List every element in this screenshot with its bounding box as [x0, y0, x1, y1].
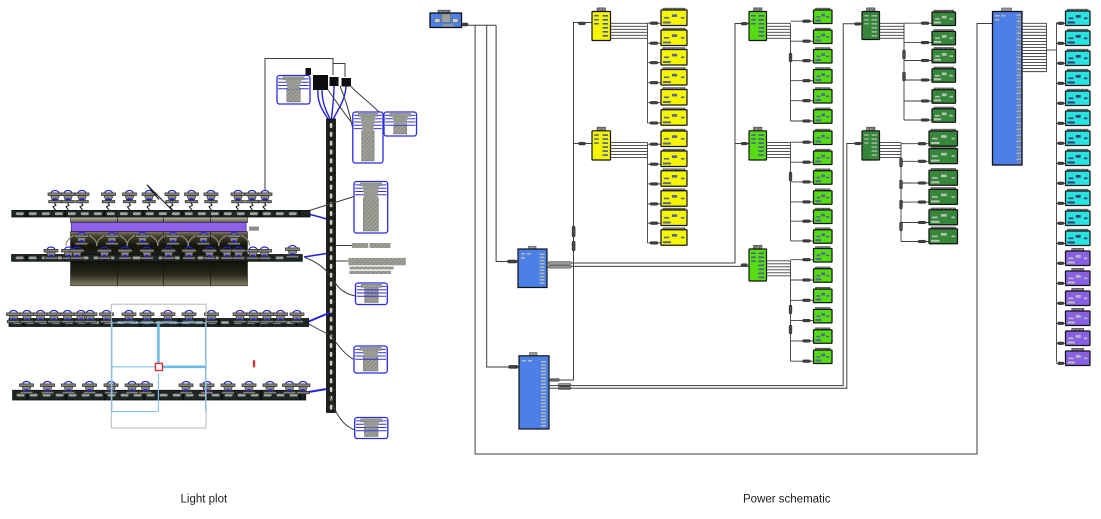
wire stub: [791, 320, 814, 322]
fixture F13: [75, 233, 89, 253]
wire fan Y2: [611, 143, 648, 243]
fixture F18: [227, 233, 241, 253]
truss T4: [13, 390, 306, 400]
device Y1.1: [661, 8, 687, 25]
fixture F63: [283, 382, 297, 394]
capsule connector: [900, 200, 903, 209]
distribution box Y2: [592, 127, 611, 160]
fixture F55: [104, 382, 118, 394]
fixture F48: [260, 311, 274, 323]
connector: [579, 142, 586, 145]
device Y1.6: [661, 108, 687, 125]
cable tray bar: [352, 243, 369, 248]
cable tray bar: [370, 243, 391, 248]
device G3.6: [814, 348, 833, 363]
load box L4: [1066, 69, 1091, 85]
fixture F41: [122, 311, 136, 323]
wire stub: [648, 22, 662, 24]
crosshair thick vertical: [157, 324, 160, 364]
device D1.6: [932, 107, 956, 122]
selection marquee rectangle: [111, 304, 206, 428]
wire stub: [1057, 22, 1066, 24]
breakout box E: [356, 283, 388, 305]
fixture F59: [200, 382, 214, 394]
connector: [855, 23, 862, 26]
video wall mid row: [71, 232, 248, 262]
distribution box Y1: [592, 8, 611, 41]
fixture F8: [185, 191, 199, 211]
wire stub: [648, 203, 662, 205]
fixture F58: [179, 382, 193, 394]
load box L6: [1066, 109, 1091, 125]
wire riser right column: [1056, 23, 1058, 363]
fixture F27: [203, 247, 217, 259]
guide line: [111, 323, 113, 412]
wire stub: [1057, 62, 1066, 64]
power distro R2: [519, 353, 549, 429]
device D2.5: [929, 208, 958, 225]
device D1.2: [932, 30, 956, 45]
fixture F25: [162, 247, 176, 259]
svg-text:Power schematic: Power schematic: [743, 494, 831, 506]
fixture F6: [142, 191, 156, 211]
device G1.2: [814, 28, 833, 43]
fixture F36: [47, 311, 61, 323]
capsule connector: [789, 305, 792, 314]
device G2.5: [814, 208, 833, 223]
connector: [579, 22, 586, 25]
fixture F51: [20, 382, 34, 394]
wall side tab: [249, 227, 259, 231]
fixture F23: [118, 247, 132, 259]
device Y2.1: [661, 129, 687, 146]
distribution box G2: [749, 127, 767, 160]
fixture F10: [231, 191, 245, 211]
wire feeder to distro R2: [487, 25, 519, 367]
fixture F26: [182, 247, 196, 259]
distribution box D2: [862, 127, 880, 160]
wire feeder to distro R1: [496, 25, 518, 261]
blue cable: [309, 313, 330, 322]
wire distro R2 output C: [549, 144, 862, 389]
truss T3: [9, 319, 309, 327]
load box L13: [1066, 248, 1091, 265]
wire feeder bus: [468, 24, 496, 26]
wire stub: [648, 143, 662, 145]
cable: [340, 86, 353, 129]
fixture F2: [61, 191, 75, 211]
wire fan Y1: [611, 23, 648, 123]
fixture F1: [48, 191, 62, 211]
svg-text:Light plot: Light plot: [181, 494, 228, 506]
dimmer block B2: [330, 77, 339, 86]
connector: [741, 142, 748, 145]
cable: [305, 258, 330, 276]
capsule connector: [900, 158, 903, 167]
cable: [330, 396, 355, 430]
load box L10: [1066, 189, 1091, 205]
device G1.5: [814, 88, 833, 103]
device D2.2: [929, 147, 958, 164]
wire stub: [648, 183, 662, 185]
load box L8: [1066, 149, 1091, 165]
annotation arrow: [147, 185, 172, 210]
device G3.3: [814, 287, 833, 302]
wire stub: [1057, 82, 1066, 84]
blue cable: [322, 90, 330, 119]
blue cable: [304, 254, 327, 258]
device Y1.2: [661, 28, 687, 45]
breakout box C: [384, 112, 417, 136]
cable: [303, 197, 354, 213]
device Y1.4: [661, 68, 687, 85]
fixture F39: [83, 311, 97, 323]
wire stub: [791, 40, 814, 42]
connector: [509, 365, 519, 368]
fixture F38: [74, 311, 88, 323]
wire stub: [1057, 322, 1066, 324]
cable: [332, 277, 356, 296]
guide line: [112, 411, 158, 413]
device D1.3: [932, 48, 956, 63]
breakout box A: [277, 76, 310, 105]
fixture F42: [140, 311, 154, 323]
load box L7: [1066, 129, 1091, 145]
blue cable: [300, 213, 327, 220]
wire stub: [648, 42, 662, 44]
device D2.6: [929, 227, 958, 244]
device D2.3: [929, 169, 958, 186]
truss T2: [12, 255, 303, 262]
fixture F54: [83, 382, 97, 394]
wire stub: [648, 62, 662, 64]
connector capsule pair: [548, 262, 572, 265]
breakout box D: [354, 182, 388, 234]
fixture F52: [41, 382, 55, 394]
video wall top row: [71, 216, 248, 223]
wire stub: [901, 160, 929, 162]
device Y2.3: [661, 169, 687, 186]
wire stub: [1057, 222, 1066, 224]
wire stub: [791, 340, 814, 342]
load box L17: [1066, 328, 1091, 345]
fixture F50: [290, 311, 304, 323]
device D1.5: [932, 88, 956, 103]
wire distro R2 output B: [549, 24, 862, 386]
fixture F43: [161, 311, 175, 323]
wire stub: [648, 163, 662, 165]
device D1.4: [932, 67, 956, 82]
wire stub: [1057, 102, 1066, 104]
wire stub: [648, 222, 662, 224]
fixture F62: [263, 382, 277, 394]
wire fan D1: [880, 23, 905, 120]
wire stub: [1057, 122, 1066, 124]
connector: [462, 23, 469, 26]
fixture F14: [105, 233, 119, 253]
device G1.4: [814, 68, 833, 83]
wire feeder to main panel: [475, 24, 992, 455]
fixture F47: [247, 311, 261, 323]
wire stub: [791, 181, 814, 183]
load box L12: [1066, 229, 1091, 245]
device G3.2: [814, 267, 833, 282]
device Y2.5: [661, 208, 687, 225]
fixture F22: [98, 247, 112, 259]
wire stub: [1057, 302, 1066, 304]
video wall fixture arches: [66, 234, 250, 246]
fixture F12: [258, 191, 272, 211]
device G2.1: [814, 129, 833, 144]
connector strip: [306, 68, 312, 75]
wire stub: [904, 100, 932, 102]
fixture F56: [125, 382, 139, 394]
wire stub: [1057, 362, 1066, 364]
guide line: [205, 323, 207, 412]
connector: [741, 22, 748, 25]
cable: [330, 334, 354, 360]
capsule connector: [789, 53, 792, 62]
fixture F3: [75, 191, 89, 211]
wire distro R1 output B: [572, 265, 750, 267]
wire stub: [1057, 142, 1066, 144]
wire stub: [901, 182, 929, 184]
wire stub: [1057, 342, 1066, 344]
wire stub: [791, 60, 814, 62]
wire bundle from main panel: [1022, 23, 1057, 71]
device G2.3: [814, 169, 833, 184]
device D1.1: [932, 10, 956, 25]
fixture F17: [197, 233, 211, 253]
main panel P (big blue): [993, 8, 1023, 165]
load box L1: [1066, 9, 1091, 25]
cable: [351, 87, 384, 118]
load box L14: [1066, 268, 1091, 285]
distribution box D1: [862, 8, 880, 40]
wire stub: [1057, 182, 1066, 184]
guide line: [112, 366, 155, 368]
wire stub: [904, 22, 932, 24]
wire stub: [791, 220, 814, 222]
device G3.1: [814, 247, 833, 262]
wire stub: [735, 143, 749, 145]
wire stub: [1057, 242, 1066, 244]
breakout box F: [354, 346, 387, 373]
connector capsule pair: [550, 379, 560, 382]
fixture F5: [123, 191, 137, 211]
LED batten bar: [71, 223, 246, 232]
fixture F15: [136, 233, 150, 253]
fixture F37: [61, 311, 75, 323]
fixture F19: [44, 247, 58, 259]
wire stub: [1057, 262, 1066, 264]
device G2.4: [814, 189, 833, 204]
wire stub: [648, 82, 662, 84]
fixture F64: [296, 382, 310, 394]
wire stub: [904, 79, 932, 81]
device G2.6: [814, 228, 833, 243]
blue cable: [332, 86, 335, 119]
load box L5: [1066, 89, 1091, 105]
load box L16: [1066, 308, 1091, 325]
dimmer block B3: [342, 78, 352, 87]
device Y2.2: [661, 149, 687, 166]
wire fan D2: [880, 143, 902, 242]
fixture F61: [242, 382, 256, 394]
distribution box G1: [749, 8, 767, 41]
fixture F35: [34, 311, 48, 323]
fixture F29: [232, 247, 246, 259]
connector: [855, 142, 862, 145]
wire stub: [791, 279, 814, 281]
wire: [336, 260, 349, 262]
capsule connector: [789, 172, 792, 181]
fixture F31: [258, 247, 272, 259]
fixture F46: [233, 311, 247, 323]
dimmer block B1: [313, 75, 328, 90]
wire stub: [791, 240, 814, 242]
load box L18: [1066, 348, 1091, 365]
wire stub: [904, 42, 932, 44]
wire stub: [791, 360, 814, 362]
load box L3: [1066, 49, 1091, 65]
load box L2: [1066, 29, 1091, 45]
cable: [309, 324, 328, 334]
load box L11: [1066, 209, 1091, 225]
main power supply M: [430, 10, 462, 27]
wire stub: [1057, 202, 1066, 204]
device Y2.4: [661, 189, 687, 206]
capsule connector: [789, 325, 792, 334]
wire stub: [648, 242, 662, 244]
device D2.1: [929, 129, 958, 146]
cable tray bar: [349, 258, 406, 265]
device G2.2: [814, 149, 833, 164]
selection handle red square: [155, 363, 162, 370]
device Y1.3: [661, 48, 687, 65]
wire stub: [901, 222, 929, 224]
wire: [333, 64, 345, 78]
wire stub: [1057, 42, 1066, 44]
breakout box G: [355, 418, 388, 439]
truss T1: [12, 210, 310, 217]
wire stub: [791, 201, 814, 203]
fixture F21: [70, 247, 84, 259]
capsule connector: [903, 72, 906, 81]
capsule connector: [900, 180, 903, 189]
connector: [508, 260, 518, 263]
fixture F16: [166, 233, 180, 253]
guide line: [112, 322, 206, 324]
wire distro R1 output A: [572, 24, 750, 264]
wire stub: [791, 161, 814, 163]
load box L15: [1066, 288, 1091, 305]
wire stub: [791, 20, 814, 22]
wire stub yellow dist2: [574, 143, 593, 145]
video wall bottom row: [71, 262, 248, 286]
fixture F49: [274, 311, 288, 323]
device Y1.5: [661, 88, 687, 105]
wire stub: [791, 299, 814, 301]
wire: [336, 245, 352, 247]
connector: [741, 264, 748, 267]
cable tray bar: [349, 271, 391, 274]
wire stub: [901, 143, 929, 145]
wire stub: [901, 201, 929, 203]
power distro R1: [518, 246, 547, 287]
wire stub: [904, 119, 932, 121]
vertical truss ladder: [327, 119, 336, 413]
device G3.5: [814, 328, 833, 343]
fixture F60: [221, 382, 235, 394]
wire stub: [1057, 282, 1066, 284]
wire stub: [791, 80, 814, 82]
wire stub: [791, 120, 814, 122]
fixture F44: [182, 311, 196, 323]
load box L9: [1066, 169, 1091, 185]
blue cable: [318, 90, 328, 119]
fixture F34: [20, 311, 34, 323]
wire stub: [648, 122, 662, 124]
device G1.3: [814, 48, 833, 63]
fixture F45: [205, 311, 219, 323]
wire fan G1: [767, 23, 791, 121]
device G3.4: [814, 308, 833, 323]
wire stub: [904, 60, 932, 62]
crosshair thick horizontal: [163, 365, 206, 368]
capsule connector: [900, 222, 903, 231]
wire stub: [648, 102, 662, 104]
device D2.4: [929, 188, 958, 205]
fixture F33: [7, 311, 21, 323]
wire distro R2 output A: [549, 23, 592, 381]
cable tray bar: [349, 267, 393, 270]
breakout box B: [353, 112, 383, 163]
capsule on wire: [572, 226, 575, 237]
fixture F32: [286, 246, 300, 258]
distribution box G3: [749, 245, 767, 281]
guide line: [157, 374, 159, 412]
fixture F4: [102, 191, 116, 211]
wire fan G2: [767, 143, 791, 241]
wire stub: [791, 141, 814, 143]
wire stub: [901, 241, 929, 243]
cable: [328, 90, 353, 124]
capsule connector: [903, 50, 906, 59]
wire: [265, 59, 333, 191]
fixture F24: [140, 247, 154, 259]
fixture F40: [100, 311, 114, 323]
device G1.6: [814, 108, 833, 123]
wire stub: [791, 259, 814, 261]
device Y2.6: [661, 228, 687, 245]
device G1.1: [814, 8, 833, 23]
fixture F7: [165, 191, 179, 211]
blue cable: [334, 87, 347, 120]
fixture F11: [245, 191, 259, 211]
fixture F53: [62, 382, 76, 394]
red cursor I: [253, 360, 255, 367]
wire fan G3: [767, 261, 791, 361]
wire stub: [791, 100, 814, 102]
blue cable: [306, 389, 327, 393]
fixture F28: [220, 247, 234, 259]
fixture F30: [246, 247, 260, 259]
fixture F57: [139, 382, 153, 394]
fixture F20: [62, 247, 76, 259]
wire stub: [1057, 162, 1066, 164]
fixture F9: [204, 191, 218, 211]
